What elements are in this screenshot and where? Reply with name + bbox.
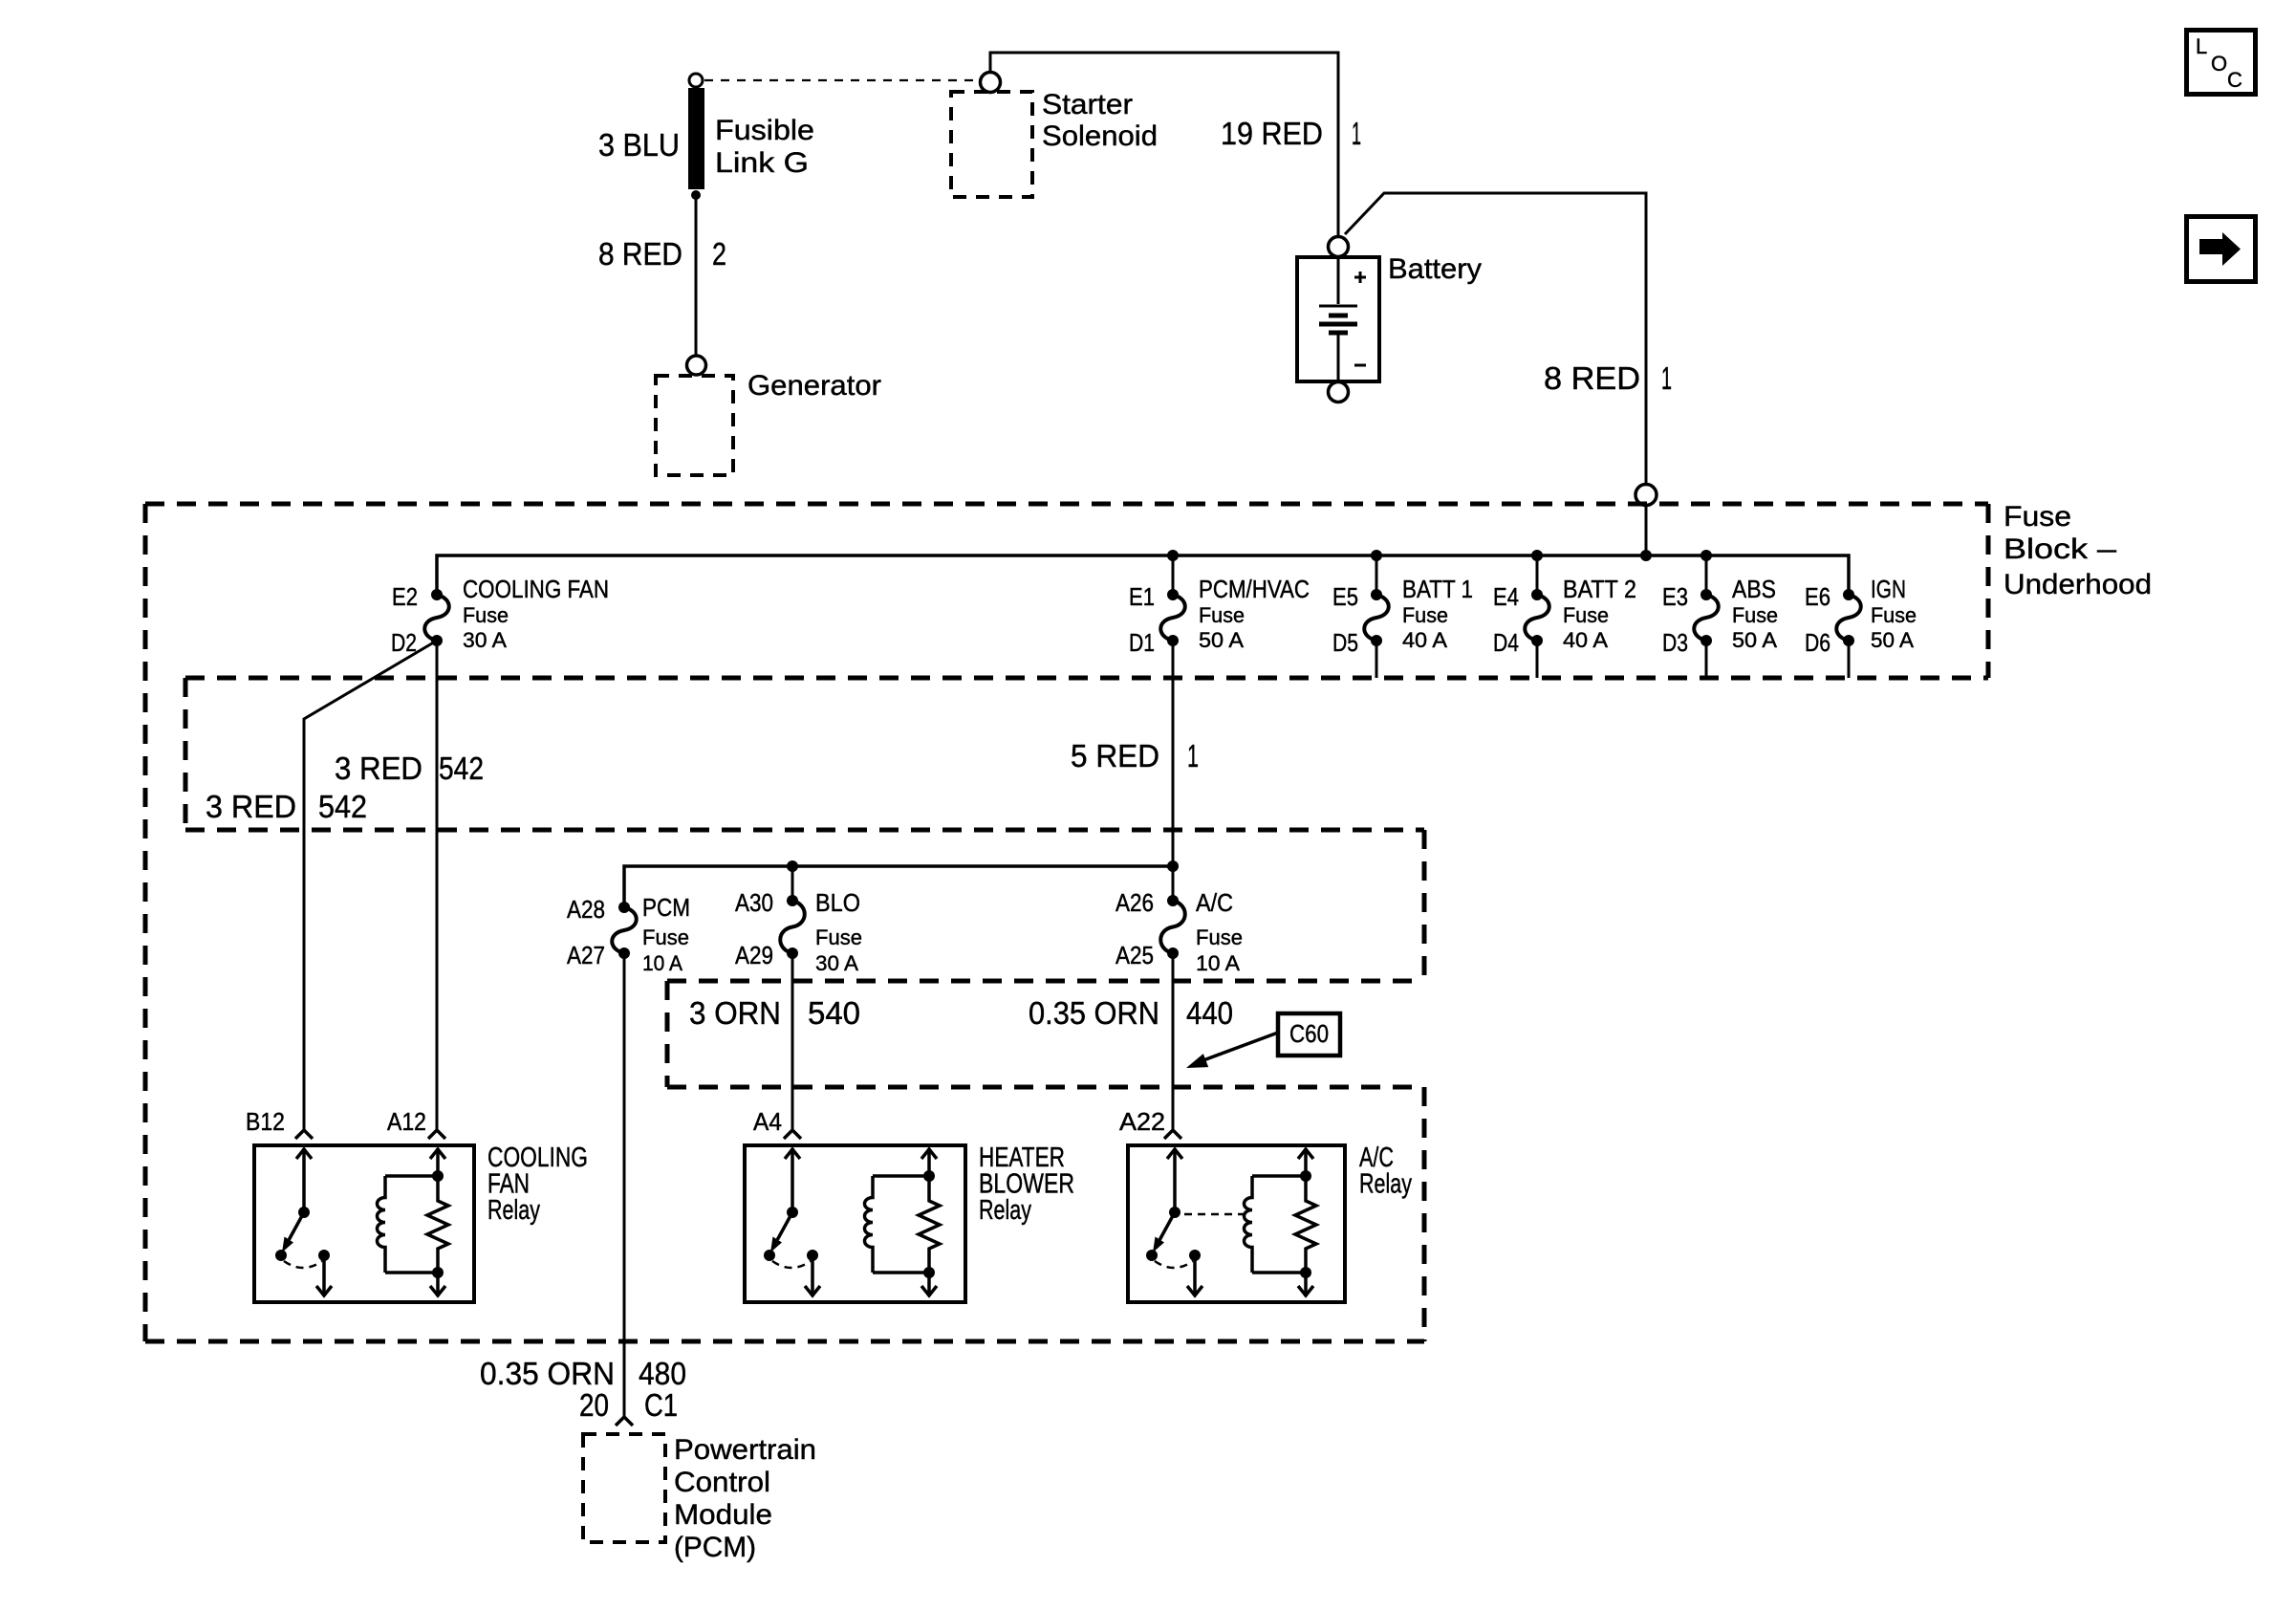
svg-text:Fuse: Fuse [1199,603,1245,627]
svg-text:Control: Control [674,1467,770,1498]
stub to fuse E3 [1705,555,1708,595]
svg-text:30 A: 30 A [815,951,858,975]
svg-text:Generator: Generator [747,370,881,402]
svg-text:20: 20 [579,1387,609,1423]
fuse label BATT 1 [1402,575,1473,652]
label 3 ORN | 540 [689,995,860,1031]
cooling fan relay box [254,1145,474,1302]
svg-text:E5: E5 [1332,582,1358,611]
bus wire (row 2) [624,866,1173,907]
svg-text:Underhood: Underhood [2004,569,2152,600]
connector chevron B12 [295,1130,313,1139]
svg-text:Fuse: Fuse [642,925,689,949]
fuse PCM/HVAC (E1/D1) [1160,589,1185,646]
svg-text:Relay: Relay [1359,1169,1412,1200]
label Powertrain Control Module (PCM) [674,1434,816,1563]
arrow icon box [2187,217,2256,282]
stub to BLO fuse [791,866,794,901]
wire A29 to A4 (3 ORN 540) [791,953,794,1129]
svg-text:3 BLU: 3 BLU [598,127,680,163]
svg-text:Relay: Relay [979,1195,1031,1226]
svg-text:10 A: 10 A [1196,951,1240,975]
label 0.35 ORN | 440 [1029,995,1233,1031]
connector chevron PCM 20/C1 [616,1417,633,1426]
dashed wire fusible link to starter solenoid [704,79,979,81]
fuse BLO (A30/A29) [780,895,805,959]
label 20 | C1 [579,1387,678,1423]
stub to fuse E5 [1375,555,1378,595]
svg-text:542: 542 [318,789,367,824]
fuse label BLO [815,888,862,975]
svg-text:40 A: 40 A [1402,628,1447,652]
starter solenoid terminal circle [981,73,1001,93]
svg-text:3 RED: 3 RED [206,789,296,824]
wire D1 down to row-2 bus (5 RED 1) [1172,641,1175,866]
svg-text:COOLING FAN: COOLING FAN [463,575,609,603]
svg-text:A28: A28 [567,895,605,924]
label Fuse Block - Underhood [2004,501,2152,600]
svg-text:L: L [2196,34,2207,58]
battery plus sign [1354,272,1366,283]
fuse label PCM/HVAC [1199,575,1310,652]
stub below fuse D4 [1536,641,1539,678]
cooling fan relay coil [378,1176,439,1273]
stub to fuse E4 [1536,555,1539,595]
A/C relay dashed actuator link [1184,1213,1245,1216]
svg-text:Fuse: Fuse [1732,603,1778,627]
connector chevron A4 [784,1130,801,1139]
svg-text:5 RED: 5 RED [1071,738,1159,773]
svg-text:BATT 1: BATT 1 [1402,575,1473,603]
bus junction E1 [1167,550,1179,561]
fuse ABS (E3/D3) [1694,589,1719,646]
svg-text:3 RED: 3 RED [335,751,422,786]
svg-text:Starter: Starter [1042,89,1133,120]
svg-text:Fuse: Fuse [1871,603,1917,627]
svg-text:540: 540 [808,995,860,1031]
svg-text:A26: A26 [1116,888,1154,917]
battery negative terminal circle [1329,382,1349,403]
heater blower relay box [745,1145,965,1302]
powertrain control module dashed box [583,1434,665,1542]
label Starter Solenoid [1042,89,1158,152]
label 8 RED | 1 [1544,360,1672,396]
label Fusible Link G [715,115,814,179]
bus junction A/C [1167,860,1179,872]
fuse label IGN [1871,575,1917,652]
svg-text:(PCM): (PCM) [674,1532,756,1563]
fusible link G terminal circle [689,74,703,87]
svg-text:19 RED: 19 RED [1221,116,1323,151]
svg-text:ABS: ABS [1732,575,1776,603]
fuse A/C (A26/A25) [1160,895,1185,959]
svg-text:D3: D3 [1662,628,1688,657]
cooling fan relay label [487,1143,588,1226]
svg-text:542: 542 [439,751,484,786]
svg-text:Solenoid: Solenoid [1042,120,1158,152]
stub below fuse D3 [1705,641,1708,678]
svg-text:30 A: 30 A [463,628,507,652]
connector callout C60 box [1278,1013,1340,1056]
svg-text:A22: A22 [1119,1107,1165,1136]
svg-text:1: 1 [1352,116,1361,151]
svg-text:BATT 2: BATT 2 [1563,575,1636,603]
svg-text:O: O [2211,52,2227,76]
bus wire (row 1) [437,555,1849,595]
svg-text:0.35 ORN: 0.35 ORN [480,1356,615,1391]
cooling fan relay switch [275,1148,332,1296]
A/C relay box [1128,1145,1345,1302]
C60 arrow [1186,1033,1278,1068]
svg-text:Module: Module [674,1499,772,1531]
battery cell symbol [1319,259,1357,380]
svg-text:E4: E4 [1493,582,1519,611]
svg-text:Fuse: Fuse [815,925,862,949]
A/C relay resistor [1295,1148,1316,1296]
svg-text:480: 480 [639,1356,686,1391]
svg-text:D5: D5 [1332,628,1358,657]
label 5 RED | 1 [1071,738,1199,773]
svg-text:D4: D4 [1493,628,1519,657]
svg-text:Fuse: Fuse [1563,603,1609,627]
label 19 RED | 1 [1221,116,1361,151]
wire solenoid to 19 RED vertical [990,53,1338,236]
A/C relay label [1359,1143,1412,1200]
svg-text:A27: A27 [567,941,605,969]
wire into fuse block bus [1645,506,1648,556]
svg-text:440: 440 [1186,995,1233,1031]
A/C relay coil [1245,1176,1307,1273]
generator terminal circle [687,356,706,375]
battery box [1297,257,1379,381]
starter solenoid dashed box [951,92,1032,197]
svg-text:C: C [2227,68,2242,92]
bus junction 8RED feed [1640,550,1652,561]
node below fusible link [691,190,701,200]
heater blower relay coil [865,1176,930,1273]
wire A25 to A22 (0.35 ORN 440) [1172,953,1175,1129]
svg-text:PCM/HVAC: PCM/HVAC [1199,575,1310,603]
wire A27 to PCM (0.35 ORN 480) [623,953,626,1416]
stub below fuse D6 [1848,641,1851,678]
svg-text:3 ORN: 3 ORN [689,995,781,1031]
cooling fan relay resistor [427,1148,448,1296]
svg-text:A12: A12 [387,1107,426,1136]
svg-text:E2: E2 [392,582,418,611]
bus junction E3 [1700,550,1712,561]
svg-text:8 RED: 8 RED [1544,360,1640,396]
fuse BATT 2 (E4/D4) [1525,589,1549,646]
stub to A/C fuse [1172,866,1175,901]
label 3 RED | 542 (B12 wire) [206,789,367,824]
stub below fuse D5 [1375,641,1378,678]
wire D2 diagonal to B12 branch [304,641,437,1129]
svg-text:E6: E6 [1805,582,1830,611]
svg-text:D1: D1 [1129,628,1155,657]
battery positive terminal circle [1329,237,1349,257]
svg-text:A/C: A/C [1196,888,1233,917]
heater blower relay switch [764,1148,820,1296]
svg-text:50 A: 50 A [1871,628,1914,652]
label 0.35 ORN | 480 [480,1356,686,1391]
fuse label ABS [1732,575,1778,652]
svg-text:1: 1 [1187,738,1199,773]
svg-text:E3: E3 [1662,582,1688,611]
fuse PCM (A28/A27) [612,902,637,959]
svg-text:A29: A29 [735,941,773,969]
connector chevron A12 [428,1130,445,1139]
wire D2 to A12 [436,641,439,1129]
bus junction BLO [787,860,798,872]
label 8 RED | 2 [598,236,726,272]
svg-text:10 A: 10 A [642,951,682,975]
fuse label BATT 2 [1563,575,1636,652]
connector chevron A22 [1164,1130,1181,1139]
svg-text:40 A: 40 A [1563,628,1608,652]
svg-text:D2: D2 [391,628,417,657]
svg-text:C60: C60 [1289,1019,1329,1048]
heater blower relay label [979,1143,1074,1226]
svg-text:A30: A30 [735,888,773,917]
LOC icon box [2187,31,2256,95]
fuse IGN (E6/D6) [1836,589,1861,646]
stub to fuse E1 [1172,555,1175,595]
svg-text:Fuse: Fuse [1196,925,1243,949]
svg-text:8 RED: 8 RED [598,236,682,272]
svg-text:Fuse: Fuse [463,603,509,627]
heater blower relay resistor [919,1148,940,1296]
fuse label PCM [642,893,690,975]
svg-text:E1: E1 [1129,582,1155,611]
svg-text:PCM: PCM [642,893,690,922]
generator dashed box [656,376,733,475]
fuse BATT 1 (E5/D5) [1364,589,1389,646]
svg-text:50 A: 50 A [1199,628,1244,652]
svg-text:A25: A25 [1116,941,1154,969]
fuse COOLING FAN (E2/D2) [424,589,449,646]
svg-text:Fuse: Fuse [2004,501,2071,533]
fusible link G body [688,88,704,189]
wire 8 RED 1 (battery to fuse block) [1345,193,1646,484]
svg-text:Fuse: Fuse [1402,603,1448,627]
svg-text:Fusible: Fusible [715,115,814,146]
svg-text:Link G: Link G [715,147,809,179]
svg-text:Powertrain: Powertrain [674,1434,816,1466]
svg-text:Battery: Battery [1388,253,1482,285]
svg-text:Relay: Relay [487,1195,540,1226]
fuse label COOLING FAN [463,575,609,652]
bus junction E4 [1531,550,1543,561]
svg-text:Block –: Block – [2004,533,2116,565]
battery minus sign [1354,364,1366,367]
wire 8 RED 2 (fusible link to generator) [695,195,698,356]
svg-text:BLO: BLO [815,888,860,917]
svg-text:D6: D6 [1805,628,1830,657]
A/C relay switch [1146,1148,1202,1296]
fuse label A/C [1196,888,1243,975]
svg-text:0.35 ORN: 0.35 ORN [1029,995,1159,1031]
fuse block feed-through circle [1635,485,1657,506]
bus junction E5 [1371,550,1382,561]
svg-text:A4: A4 [753,1107,782,1136]
svg-text:50 A: 50 A [1732,628,1777,652]
svg-text:1: 1 [1661,360,1672,396]
svg-text:C1: C1 [644,1387,678,1423]
fuse block underhood dashed outline [145,504,1988,1341]
svg-text:IGN: IGN [1871,575,1906,603]
svg-text:B12: B12 [246,1107,285,1136]
svg-text:2: 2 [712,236,726,272]
label 3 RED | 542 (A12 wire) [335,751,484,786]
